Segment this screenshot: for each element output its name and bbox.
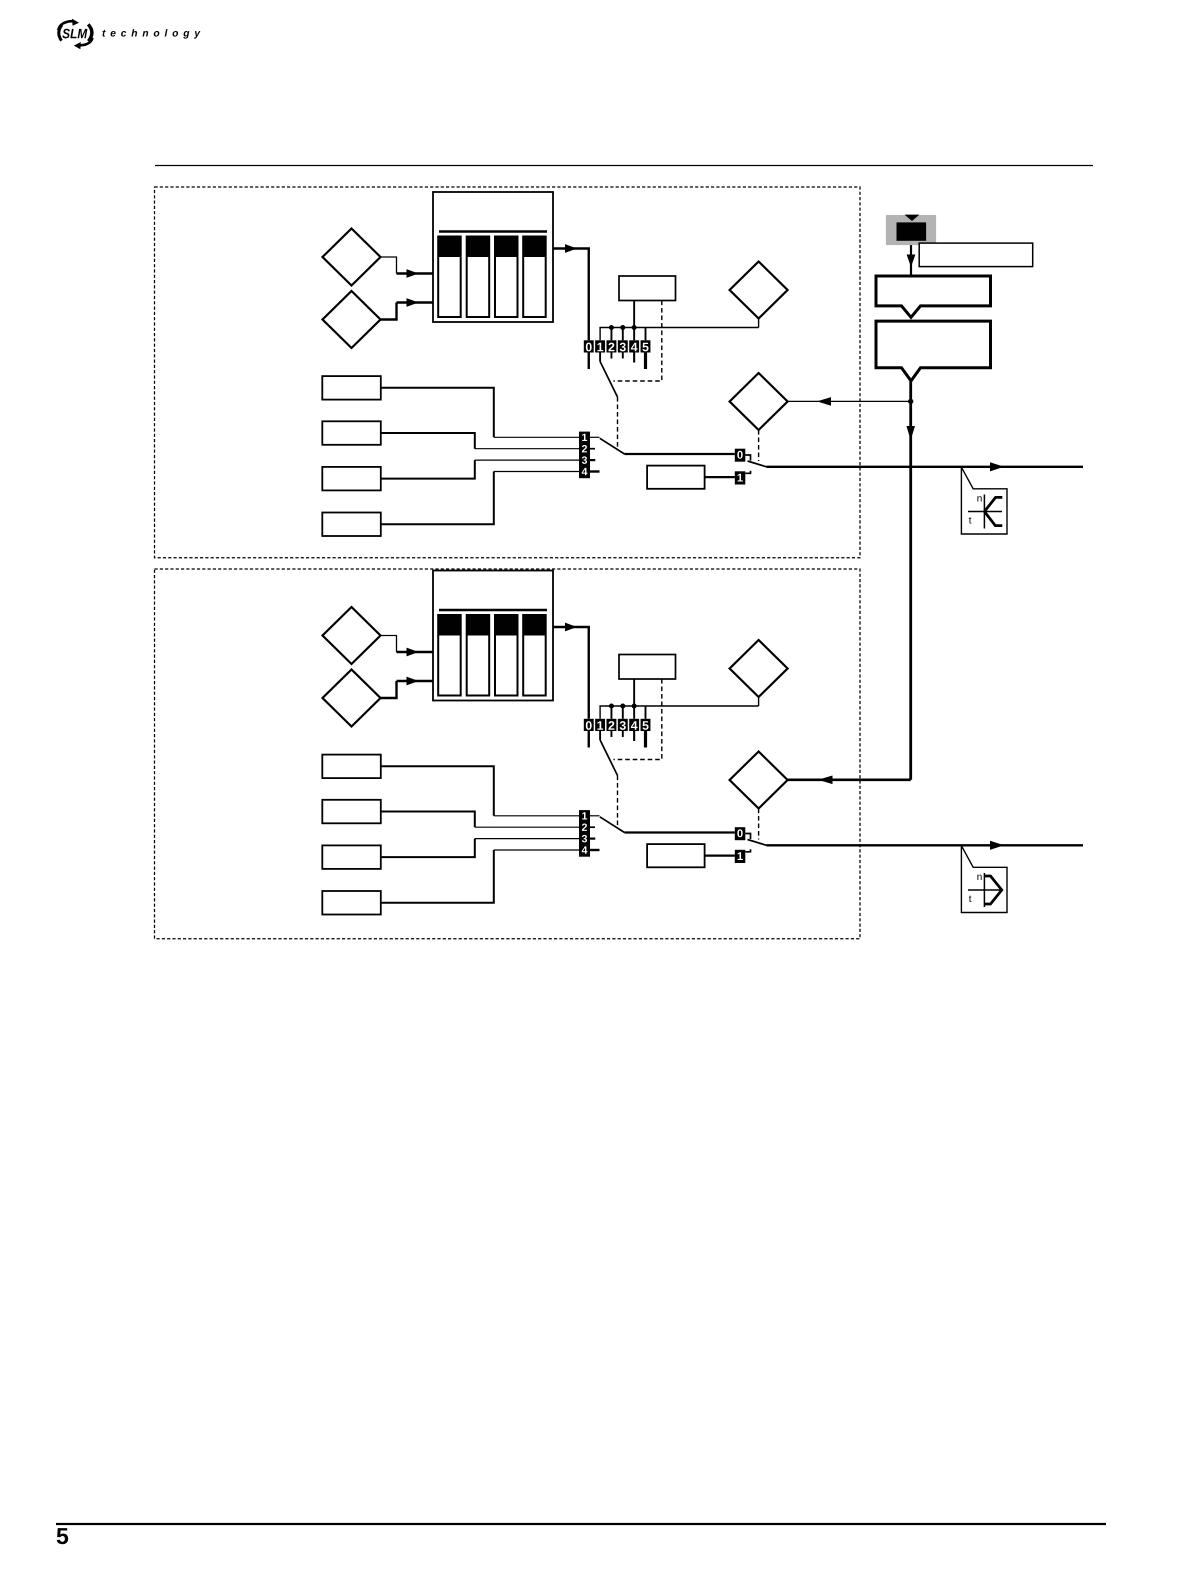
wire parameter box to bus (bottom) [633, 679, 635, 719]
dashed line mux wiper to selector wiper (bottom) [617, 776, 619, 828]
parameter diamond B (bottom right lower) [730, 752, 788, 809]
vertical line junction to bottom diagram [909, 401, 912, 779]
wire block output to mux input 0 (bottom) [553, 627, 589, 719]
function box 1 (notched) [876, 276, 991, 317]
selector wiper to switch (top) [600, 438, 625, 454]
wire diamond A to bus (top) [758, 319, 760, 328]
fixed-setpoint block (top) [433, 192, 553, 322]
setpoint box 3 (bottom) [322, 845, 381, 869]
parameter diamond B (top right lower) [730, 373, 788, 430]
page number 5 [57, 1528, 68, 1544]
wire setpoint box 2 to selector (top) [381, 433, 475, 449]
arrow connector to function box 1 [910, 245, 912, 276]
wire setpoint box 4 to selector (top) [381, 472, 494, 525]
wire function box 2 to junction [909, 381, 912, 402]
switch wiper (top) [748, 461, 767, 467]
dashed line diamond B to switch wiper (bottom) [758, 809, 760, 840]
switch position 1 (bottom) [735, 850, 746, 863]
selection bus (top) [600, 328, 759, 341]
selector 1-4 (top) [579, 432, 590, 479]
parameter box (bottom) [619, 655, 676, 680]
wire P1 to block (bottom) [381, 636, 397, 653]
parameter box (top) [619, 276, 676, 301]
parameter diamond P1 (bottom) [323, 607, 381, 664]
wire diamond A to bus (bottom) [758, 697, 760, 706]
bus junction dot input3 (top) [620, 325, 625, 330]
wire P2 to block (top) [381, 303, 397, 320]
parameter diamond A (bottom right upper) [730, 640, 788, 697]
fixed-setpoint block (bottom) [433, 571, 553, 701]
setpoint box 4 (top) [322, 513, 381, 537]
bus junction dot input2 (bottom) [609, 704, 614, 709]
switch position 1 (top) [735, 471, 746, 484]
wire setpoint box 2 to selector (bottom) [381, 812, 475, 828]
parameter diamond P2 (top) [323, 291, 381, 348]
logo SLM technology [58, 19, 200, 49]
output line (bottom) [767, 844, 1084, 846]
dashed control line parameter box to mux wiper (top) [614, 301, 662, 382]
wire setpoint box 3 to selector (bottom) [381, 839, 475, 858]
setpoint box 2 (top) [322, 421, 381, 445]
mux wiper (top) [600, 362, 617, 398]
footer rule [56, 1523, 1106, 1525]
wire block output to mux input 0 (top) [553, 249, 589, 341]
setpoint box 1 (bottom) [322, 755, 381, 779]
multiplexer 0-5 (top) [584, 340, 594, 352]
wire setpoint box 1 to selector (bottom) [381, 766, 494, 816]
parameter diamond A (top right upper) [730, 262, 788, 319]
multiplexer 0-5 (bottom) [584, 719, 594, 731]
switch position 0 (bottom) [735, 827, 746, 840]
dashed line mux wiper to selector wiper (top) [617, 397, 619, 449]
selection bus (bottom) [600, 706, 759, 719]
selector wiper to switch (bottom) [600, 817, 625, 833]
wire parameter box to bus (top) [633, 301, 635, 341]
dashed frame (bottom diagram) [155, 569, 861, 939]
dashed line diamond B to switch wiper (top) [758, 430, 760, 461]
parameter diamond P2 (bottom) [323, 670, 381, 727]
setpoint box 2 (bottom) [322, 800, 381, 824]
highlighted connector marker [886, 215, 936, 245]
wire setpoint box 1 to selector (top) [381, 388, 494, 438]
wire setpoint box 4 to selector (bottom) [381, 850, 494, 903]
mux wiper (bottom) [600, 740, 617, 776]
wire setpoint box 3 to selector (top) [381, 460, 475, 479]
bus junction dot input4 (bottom) [632, 704, 637, 709]
bus junction dot input4 (top) [632, 325, 637, 330]
setpoint box 3 (top) [322, 467, 381, 491]
parameter diamond P1 (top) [323, 229, 381, 286]
arrow junction to diamond B (top) [788, 400, 911, 402]
output line (top) [767, 466, 1084, 468]
box to switch position 1 (top) [647, 466, 705, 489]
switch wiper (bottom) [748, 840, 767, 846]
arrow vertical line to diamond B (bottom) [788, 778, 911, 781]
wire P2 to block (bottom) [381, 681, 397, 698]
dashed control line parameter box to mux wiper (bottom) [614, 679, 662, 760]
selector 1-4 (bottom) [579, 810, 590, 857]
function box 2 (notched) [876, 321, 991, 381]
setpoint box 1 (top) [322, 376, 381, 400]
label box right of connector [919, 243, 1032, 267]
switch position 0 (top) [735, 449, 746, 462]
ramp function icon with limits (top output) [961, 467, 1007, 534]
header rule [155, 165, 1093, 167]
box to switch position 1 (bottom) [647, 844, 705, 867]
junction node [908, 399, 913, 404]
ramp profile icon (bottom output) [961, 846, 1007, 913]
bus junction dot input3 (bottom) [620, 704, 625, 709]
wire P1 to block (top) [381, 257, 397, 274]
setpoint box 4 (bottom) [322, 891, 381, 915]
dashed frame (top diagram) [155, 187, 861, 558]
bus junction dot input2 (top) [609, 325, 614, 330]
